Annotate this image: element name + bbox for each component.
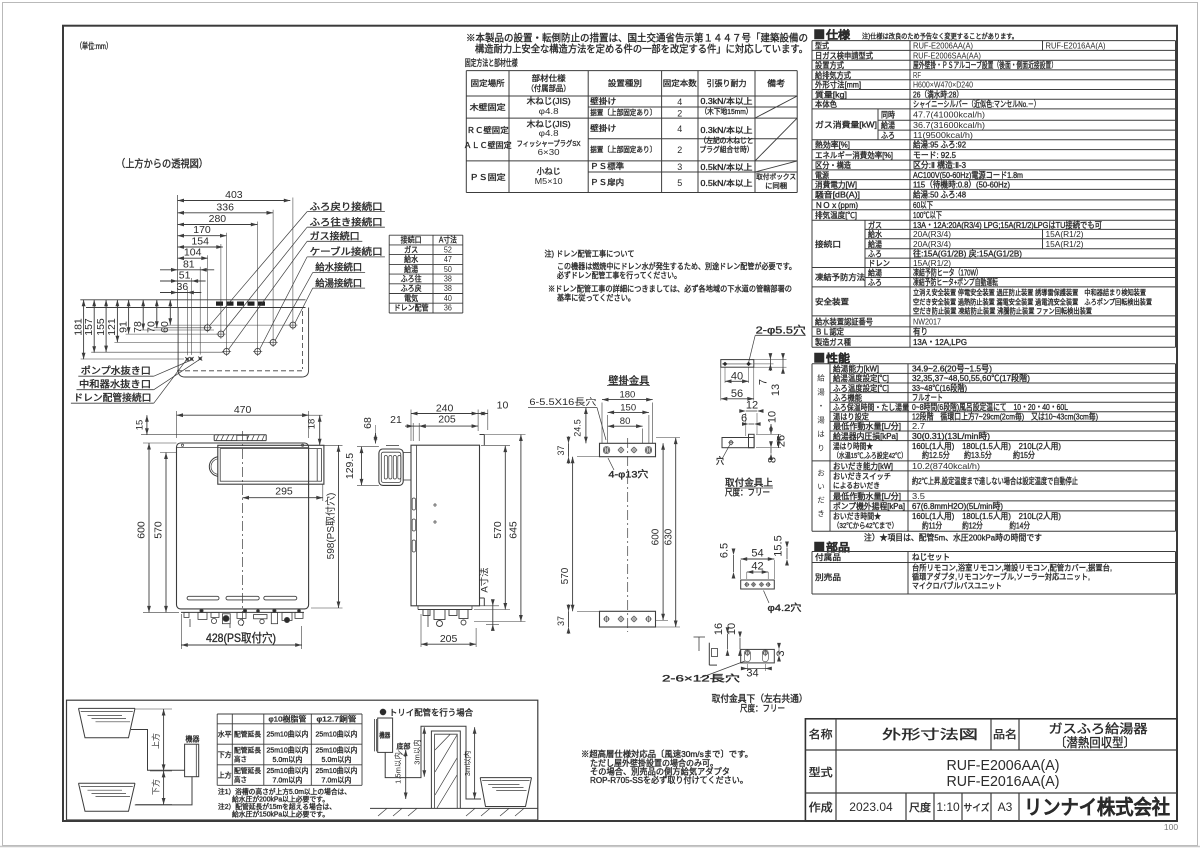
svg-text:403: 403: [225, 189, 243, 201]
svg-text:15A(R1/2): 15A(R1/2): [1046, 229, 1084, 239]
svg-text:配管延長: 配管延長: [234, 746, 261, 755]
svg-text:2-6×12長穴: 2-6×12長穴: [662, 673, 740, 684]
svg-text:注2）配管延長が15mを超える場合は、: 注2）配管延長が15mを超える場合は、: [218, 802, 336, 811]
svg-text:上方: 上方: [151, 733, 161, 749]
svg-text:60: 60: [159, 321, 171, 333]
svg-text:52: 52: [444, 245, 452, 254]
svg-text:6-5.5X16長穴: 6-5.5X16長穴: [529, 396, 596, 407]
svg-text:水平: 水平: [218, 730, 232, 739]
svg-text:固定場所: 固定場所: [471, 78, 505, 88]
svg-text:注1）浴槽の高さが上方5.0m以上の場合は、: 注1）浴槽の高さが上方5.0m以上の場合は、: [218, 787, 351, 796]
svg-text:336: 336: [216, 201, 234, 213]
svg-text:ドレン配管: ドレン配管: [394, 303, 429, 313]
svg-text:470: 470: [234, 404, 252, 416]
svg-text:給水圧が200kPa以上必要です。: 給水圧が200kPa以上必要です。: [232, 795, 329, 804]
svg-text:ガスふろ給湯器: ガスふろ給湯器: [1049, 722, 1149, 736]
svg-text:15A(R1/2): 15A(R1/2): [1046, 239, 1084, 249]
svg-text:同時: 同時: [881, 111, 895, 120]
svg-text:20A(R3/4): 20A(R3/4): [913, 229, 951, 239]
svg-text:157: 157: [83, 318, 95, 336]
svg-text:91: 91: [117, 321, 129, 333]
svg-text:性能: 性能: [826, 351, 850, 365]
svg-text:RUF-E2016AA(A): RUF-E2016AA(A): [947, 774, 1060, 790]
svg-text:RF: RF: [913, 70, 921, 80]
svg-text:81: 81: [183, 258, 195, 270]
svg-text:ふろ戻り接続口: ふろ戻り接続口: [310, 201, 383, 213]
svg-text:3: 3: [677, 162, 682, 172]
svg-text:排気温度[℃]: 排気温度[℃]: [815, 210, 857, 220]
svg-text:38: 38: [444, 275, 452, 284]
svg-text:作成: 作成: [809, 801, 833, 814]
svg-text:高さ: 高さ: [234, 755, 247, 764]
svg-text:3: 3: [775, 650, 787, 656]
svg-text:おいだきスイッチ: おいだきスイッチ: [833, 472, 891, 481]
svg-text:壁掛け: 壁掛け: [590, 123, 616, 133]
svg-text:（左記の木ねじと: （左記の木ねじと: [700, 135, 754, 145]
svg-text:13A・12A,LPG: 13A・12A,LPG: [913, 337, 967, 347]
svg-text:104: 104: [184, 247, 202, 259]
svg-text:機器: 機器: [186, 734, 200, 744]
svg-text:600: 600: [651, 528, 662, 545]
svg-text:12: 12: [746, 400, 758, 412]
svg-text:必ずドレン配管工事を行ってください。: 必ずドレン配管工事を行ってください。: [557, 270, 681, 280]
svg-text:0~8時間(6段階)風呂設定温にて 10・20・40・60L: 0~8時間(6段階)風呂設定温にて 10・20・40・60L: [912, 402, 1068, 412]
svg-text:32,35,37~48,50,55,60℃(17段階): 32,35,37~48,50,55,60℃(17段階): [912, 373, 1030, 383]
svg-text:A寸法: A寸法: [439, 235, 457, 245]
svg-text:給水装置認証番号: 給水装置認証番号: [815, 316, 873, 326]
svg-text:シャイニーシルバー（近似色:マンセルNo.－）: シャイニーシルバー（近似色:マンセルNo.－）: [913, 99, 1040, 109]
svg-text:100℃以下: 100℃以下: [913, 210, 942, 220]
svg-text:47.7(41000kcal/h): 47.7(41000kcal/h): [913, 110, 985, 120]
svg-text:645: 645: [507, 521, 519, 539]
svg-text:7.0m以内: 7.0m以内: [322, 775, 352, 785]
svg-text:給湯接続口: 給湯接続口: [315, 277, 362, 289]
svg-text:高さ: 高さ: [234, 775, 247, 784]
svg-text:ＰＳ標準: ＰＳ標準: [590, 161, 624, 171]
svg-text:598(PS取付穴): 598(PS取付穴): [324, 493, 337, 560]
svg-text:木壁固定: 木壁固定: [470, 102, 506, 112]
svg-text:給湯器内圧損[kPa]: 給湯器内圧損[kPa]: [833, 431, 898, 441]
svg-text:0.5kN/本以上: 0.5kN/本以上: [701, 162, 753, 172]
svg-text:引張り耐力: 引張り耐力: [707, 78, 747, 88]
svg-text:最低作動水量[L/分]: 最低作動水量[L/分]: [833, 421, 901, 431]
svg-text:質量[kg]: 質量[kg]: [815, 89, 847, 99]
svg-text:上方: 上方: [218, 771, 232, 780]
svg-text:穴: 穴: [716, 455, 724, 466]
svg-text:RUF-E2006AA(A): RUF-E2006AA(A): [913, 41, 973, 51]
svg-text:給湯:95 ふろ:92: 給湯:95 ふろ:92: [913, 140, 966, 150]
svg-text:空だき安全装置 過熱防止装置 漏電安全装置 過電流安全装置: 空だき安全装置 過熱防止装置 漏電安全装置 過電流安全装置 ふろポンプ回転検出装…: [913, 296, 1152, 306]
svg-text:ガス接続口: ガス接続口: [310, 231, 360, 243]
svg-text:154: 154: [191, 236, 209, 248]
svg-text:給水接続口: 給水接続口: [315, 262, 362, 274]
svg-text:熱効率[%]: 熱効率[%]: [815, 140, 850, 150]
svg-text:屋外壁掛・ＰＳアルコーブ設置（後面・側面近接設置）: 屋外壁掛・ＰＳアルコーブ設置（後面・側面近接設置）: [913, 60, 1057, 70]
svg-text:給水: 給水: [404, 254, 418, 264]
svg-text:78: 78: [132, 321, 144, 333]
svg-text:3m以内: 3m以内: [462, 751, 472, 776]
svg-text:26: 26: [776, 435, 788, 447]
svg-text:凍結予防ヒータ（170W）: 凍結予防ヒータ（170W）: [913, 268, 982, 278]
svg-text:別売品: 別売品: [815, 572, 841, 582]
svg-text:（単位:mm）: （単位:mm）: [76, 41, 112, 51]
svg-text:8: 8: [767, 457, 779, 463]
svg-text:3.5: 3.5: [912, 491, 925, 501]
svg-text:給水圧が150kPa以上必要です。: 給水圧が150kPa以上必要です。: [232, 810, 329, 819]
svg-text:φ10樹脂管: φ10樹脂管: [269, 714, 308, 724]
svg-text:立消え安全装置 停電安全装置 過圧防止装置 誘導雷保護装置: 立消え安全装置 停電安全装置 過圧防止装置 誘導雷保護装置 中和器詰まり検知装置: [913, 287, 1146, 297]
svg-text:空だき防止装置 凍結防止装置 沸騰防止装置 ファン回転検出装: 空だき防止装置 凍結防止装置 沸騰防止装置 ファン回転検出装置: [913, 306, 1092, 316]
svg-text:34: 34: [746, 668, 758, 680]
svg-text:ガス: ガス: [868, 220, 882, 230]
svg-text:21: 21: [390, 414, 402, 426]
svg-text:下方: 下方: [218, 750, 232, 759]
svg-text:約12.5分 約13.5分 約15分: 約12.5分 約13.5分 約15分: [922, 450, 1035, 460]
svg-text:7: 7: [757, 379, 769, 385]
svg-text:3m以内: 3m以内: [411, 739, 421, 764]
svg-text:給湯: 給湯: [868, 239, 882, 249]
svg-text:H600×W470×D240: H600×W470×D240: [913, 80, 973, 90]
svg-text:42: 42: [751, 561, 763, 573]
svg-text:180: 180: [619, 390, 635, 401]
svg-text:570: 570: [560, 567, 571, 584]
svg-text:名称: 名称: [809, 727, 833, 741]
svg-text:25m10曲以内: 25m10曲以内: [267, 745, 309, 755]
svg-text:0.3kN/本以上: 0.3kN/本以上: [701, 125, 753, 135]
svg-text:6.5: 6.5: [719, 543, 731, 558]
svg-text:付属品: 付属品: [815, 552, 841, 562]
svg-text:尺度：フリー: 尺度：フリー: [740, 703, 785, 714]
svg-text:205: 205: [438, 414, 456, 426]
svg-text:570: 570: [153, 521, 165, 539]
svg-text:配管延長: 配管延長: [234, 730, 261, 739]
svg-text:205: 205: [440, 633, 458, 645]
svg-text:54: 54: [751, 548, 763, 560]
svg-text:仕様: 仕様: [825, 28, 851, 42]
svg-text:ドレン: ドレン: [868, 259, 890, 268]
svg-text:20A(R3/4): 20A(R3/4): [913, 239, 951, 249]
svg-text:1.5m以内: 1.5m以内: [393, 752, 403, 784]
svg-text:6×30: 6×30: [538, 147, 560, 157]
svg-text:給湯温度設定[℃]: 給湯温度設定[℃]: [833, 373, 889, 383]
svg-text:68: 68: [362, 417, 374, 429]
svg-text:型式: 型式: [815, 41, 829, 51]
svg-text:ＮＯｘ(ppm): ＮＯｘ(ppm): [815, 201, 858, 210]
svg-text:150: 150: [620, 402, 636, 413]
svg-text:固定方法と部材仕様: 固定方法と部材仕様: [465, 57, 518, 68]
svg-text:日ガス検申請型式: 日ガス検申請型式: [815, 50, 873, 60]
svg-text:有り: 有り: [913, 327, 928, 337]
svg-text:外形寸法図: 外形寸法図: [882, 727, 978, 742]
svg-text:尺度: 尺度: [909, 801, 932, 814]
svg-text:100: 100: [1164, 822, 1178, 832]
svg-text:据置〔上部固定あり〕: 据置〔上部固定あり〕: [590, 144, 656, 154]
svg-text:湯はり設定: 湯はり設定: [833, 412, 869, 422]
svg-text:壁掛け: 壁掛け: [590, 96, 616, 106]
svg-text:区分・構造: 区分・構造: [815, 160, 851, 170]
svg-text:15A(R1/2): 15A(R1/2): [913, 258, 951, 268]
svg-text:外形寸法[mm]: 外形寸法[mm]: [815, 80, 861, 90]
svg-text:底部: 底部: [397, 742, 411, 751]
svg-text:マイクロバブルバスユニット: マイクロバブルバスユニット: [912, 581, 1002, 591]
svg-text:φ4.2穴: φ4.2穴: [768, 602, 803, 614]
svg-text:121: 121: [106, 318, 118, 336]
svg-text:ふろ: ふろ: [868, 278, 882, 287]
svg-text:36: 36: [444, 304, 452, 313]
svg-text:33~48℃(16段階): 33~48℃(16段階): [912, 383, 967, 393]
svg-text:トリイ配管を行う場合: トリイ配管を行う場合: [389, 708, 473, 718]
svg-text:おいだき時間★: おいだき時間★: [833, 512, 881, 521]
svg-text:11(9500kcal/h): 11(9500kcal/h): [913, 130, 973, 140]
svg-text:サイズ: サイズ: [964, 802, 990, 814]
svg-text:この機器は燃焼中にドレン水が発生するため、別途ドレン配管が必: この機器は燃焼中にドレン水が発生するため、別途ドレン配管が必要です。: [557, 261, 796, 271]
svg-text:5.0m以内: 5.0m以内: [322, 754, 352, 764]
svg-text:ふろ温度設定[℃]: ふろ温度設定[℃]: [833, 383, 889, 393]
svg-text:ＰＳ固定: ＰＳ固定: [470, 172, 506, 182]
svg-text:37: 37: [556, 616, 566, 626]
svg-text:エネルギー消費効率[%]: エネルギー消費効率[%]: [815, 150, 893, 160]
svg-text:ガス消費量[kW]: ガス消費量[kW]: [815, 119, 877, 129]
svg-text:〔潜熱回収型〕: 〔潜熱回収型〕: [1055, 736, 1135, 750]
svg-text:凍結予防方法: 凍結予防方法: [815, 272, 865, 282]
svg-text:10: 10: [497, 400, 509, 412]
svg-text:26（満水時:28）: 26（満水時:28）: [913, 89, 963, 99]
svg-text:4-φ13穴: 4-φ13穴: [608, 469, 649, 481]
svg-text:騒音[dB(A)]: 騒音[dB(A)]: [815, 190, 860, 200]
svg-text:（木下地15mm）: （木下地15mm）: [701, 106, 753, 116]
svg-text:台所リモコン,浴室リモコン,増設リモコン,配管カバー,据置台: 台所リモコン,浴室リモコン,増設リモコン,配管カバー,据置台,: [912, 563, 1112, 573]
svg-text:（32℃から42℃まで）: （32℃から42℃まで）: [833, 521, 898, 530]
svg-text:約11分 約12分 約14分: 約11分 約12分 約14分: [922, 521, 1030, 531]
svg-text:給湯: 給湯: [404, 264, 418, 274]
svg-text:ふろ保温時間・たし湯量: ふろ保温時間・たし湯量: [833, 402, 909, 412]
svg-text:ふろ: ふろ: [868, 250, 882, 259]
svg-text:区分:Ⅱ 構造:Ⅱ-3: 区分:Ⅱ 構造:Ⅱ-3: [913, 160, 966, 170]
svg-text:設置種別: 設置種別: [608, 78, 642, 88]
svg-text:電源: 電源: [815, 171, 829, 180]
svg-text:5.0m以内: 5.0m以内: [273, 754, 303, 764]
svg-text:最低作動水量[L/分]: 最低作動水量[L/分]: [833, 491, 901, 501]
svg-text:φ4.8: φ4.8: [539, 106, 559, 116]
svg-text:NW2017: NW2017: [913, 316, 941, 326]
svg-text:30(0.31)(13L/min時): 30(0.31)(13L/min時): [912, 431, 990, 441]
svg-text:ねじセット: ねじセット: [912, 552, 950, 562]
svg-text:給湯能力[kW]: 給湯能力[kW]: [833, 364, 879, 374]
svg-text:18: 18: [307, 419, 318, 430]
svg-text:1:10: 1:10: [936, 800, 960, 814]
svg-text:ポンプ機外揚程[kPa]: ポンプ機外揚程[kPa]: [833, 501, 905, 511]
svg-text:注）★項目は、配管5m、水圧200kPa時の時間です: 注）★項目は、配管5m、水圧200kPa時の時間です: [864, 533, 1042, 543]
svg-text:品名: 品名: [993, 727, 1017, 741]
svg-text:湯はり時間★: 湯はり時間★: [833, 441, 873, 451]
svg-text:10: 10: [767, 411, 779, 423]
svg-text:25m10曲以内: 25m10曲以内: [267, 765, 309, 775]
svg-text:ＡＬＣ壁固定: ＡＬＣ壁固定: [464, 140, 512, 150]
svg-text:※ドレン配管工事の詳細につきましては、必ず各地域の下水道の管: ※ドレン配管工事の詳細につきましては、必ず各地域の下水道の管轄部署の: [548, 284, 792, 294]
svg-text:15: 15: [135, 420, 146, 431]
svg-text:295: 295: [275, 486, 293, 498]
svg-text:配管延長: 配管延長: [234, 766, 261, 775]
svg-text:5: 5: [677, 178, 682, 188]
svg-text:（付属部品）: （付属部品）: [527, 83, 571, 93]
svg-text:凍結予防ヒータ+ポンプ自動運転: 凍結予防ヒータ+ポンプ自動運転: [913, 277, 998, 287]
svg-text:ケーブル接続口: ケーブル接続口: [310, 246, 383, 258]
svg-text:570: 570: [492, 521, 504, 539]
svg-text:25m10曲以内: 25m10曲以内: [267, 729, 309, 739]
svg-text:部材仕様: 部材仕様: [532, 73, 566, 83]
svg-text:15.5: 15.5: [773, 535, 785, 556]
svg-text:25m10曲以内: 25m10曲以内: [316, 729, 358, 739]
svg-text:フルオート: フルオート: [912, 392, 943, 402]
svg-text:型式: 型式: [809, 765, 833, 779]
svg-text:7.0m以内: 7.0m以内: [273, 775, 303, 785]
svg-text:下方: 下方: [151, 779, 161, 795]
svg-text:2-φ5.5穴: 2-φ5.5穴: [756, 324, 807, 337]
svg-text:38: 38: [444, 284, 452, 293]
svg-text:4: 4: [677, 97, 682, 107]
svg-text:取付ボックス: 取付ボックス: [756, 172, 796, 181]
svg-text:給排気方式: 給排気方式: [815, 70, 851, 80]
svg-text:によるおいだき: によるおいだき: [833, 481, 880, 490]
svg-text:小ねじ: 小ねじ: [537, 167, 561, 176]
svg-text:56: 56: [731, 388, 743, 400]
svg-text:60以下: 60以下: [913, 200, 933, 210]
svg-text:消費電力[W]: 消費電力[W]: [815, 180, 857, 190]
svg-text:A寸法: A寸法: [479, 567, 491, 592]
svg-text:おいだき能力[kW]: おいだき能力[kW]: [833, 461, 893, 471]
svg-text:280: 280: [209, 213, 227, 225]
svg-text:設置方式: 設置方式: [815, 60, 844, 70]
svg-text:50: 50: [444, 265, 453, 274]
svg-text:φ12.7銅管: φ12.7銅管: [317, 714, 358, 724]
svg-text:RUF-E2006AA(A): RUF-E2006AA(A): [947, 758, 1060, 774]
svg-text:M5×10: M5×10: [535, 176, 563, 186]
svg-text:約2℃上昇,設定温度まで達しない場合は設定温度で自動停止: 約2℃上昇,設定温度まで達しない場合は設定温度で自動停止: [912, 476, 1078, 486]
svg-text:2: 2: [677, 145, 682, 155]
svg-text:構造耐力上安全な構造方法を定める件の一部を改定する件」に対応: 構造耐力上安全な構造方法を定める件の一部を改定する件」に対応しています。: [475, 43, 808, 56]
svg-text:壁掛金具: 壁掛金具: [608, 374, 649, 387]
svg-text:36.7(31600kcal/h): 36.7(31600kcal/h): [913, 120, 985, 130]
svg-text:※本製品の設置・転倒防止の措置は、国土交通省告示第１４４７号: ※本製品の設置・転倒防止の措置は、国土交通省告示第１４４７号「建築設備の: [466, 32, 808, 45]
svg-text:67(6.8mmH2O)(5L/min時): 67(6.8mmH2O)(5L/min時): [912, 501, 1003, 511]
svg-text:40: 40: [731, 371, 743, 383]
svg-text:給湯:50 ふろ:48: 給湯:50 ふろ:48: [913, 190, 966, 200]
svg-text:170: 170: [193, 224, 211, 236]
svg-text:プラグ組合せ時）: プラグ組合せ時）: [700, 144, 754, 154]
svg-text:に同梱: に同梱: [765, 181, 787, 190]
svg-text:RUF-E2016AA(A): RUF-E2016AA(A): [1046, 41, 1106, 51]
svg-text:70: 70: [146, 321, 158, 333]
svg-text:34.9~2.6(20号~1.5号): 34.9~2.6(20号~1.5号): [912, 364, 992, 374]
svg-text:2: 2: [677, 109, 682, 119]
svg-text:（上方からの透視図）: （上方からの透視図）: [116, 157, 208, 170]
svg-text:ポンプ水抜き口: ポンプ水抜き口: [81, 365, 151, 377]
svg-text:基準に従ってください。: 基準に従ってください。: [557, 293, 635, 303]
svg-text:155: 155: [95, 318, 107, 336]
svg-text:リンナイ株式会社: リンナイ株式会社: [1024, 795, 1170, 819]
svg-text:給湯: 給湯: [881, 120, 895, 130]
svg-text:12段階 循環口上方7~29cm(2cm毎) 又は10~43: 12段階 循環口上方7~29cm(2cm毎) 又は10~43cm(3cm毎): [912, 412, 1098, 422]
svg-text:16: 16: [713, 623, 725, 635]
svg-text:36: 36: [177, 281, 189, 293]
svg-text:おいだき: おいだき: [816, 469, 825, 523]
svg-text:木ねじ(JIS): 木ねじ(JIS): [527, 96, 571, 106]
svg-text:2.7: 2.7: [912, 421, 925, 431]
svg-text:47: 47: [444, 255, 452, 264]
svg-text:ＲＣ壁固定: ＲＣ壁固定: [467, 125, 509, 135]
svg-text:モード: 92.5: モード: 92.5: [913, 150, 956, 160]
svg-text:製造ガス種: 製造ガス種: [815, 337, 851, 347]
svg-text:安全装置: 安全装置: [815, 296, 849, 306]
svg-text:給水: 給水: [868, 229, 882, 239]
svg-text:ふろ: ふろ: [881, 131, 895, 140]
svg-text:A3: A3: [998, 800, 1013, 814]
svg-text:2023.04: 2023.04: [849, 800, 893, 814]
svg-text:ガス: ガス: [404, 244, 418, 254]
svg-text:機器: 機器: [379, 731, 390, 740]
svg-text:中和器水抜き口: 中和器水抜き口: [79, 379, 151, 391]
svg-text:25m10曲以内: 25m10曲以内: [316, 745, 358, 755]
svg-text:給湯: 給湯: [868, 268, 882, 278]
svg-text:0.3kN/本以上: 0.3kN/本以上: [701, 96, 753, 106]
svg-text:115（待機時:0.8）(50-60Hz): 115（待機時:0.8）(50-60Hz): [913, 180, 1010, 190]
svg-text:0.5kN/本以上: 0.5kN/本以上: [701, 178, 753, 188]
svg-text:ふろ戻: ふろ戻: [401, 283, 422, 293]
svg-text:RUF-E2006SAA(AA): RUF-E2006SAA(AA): [913, 50, 981, 60]
svg-text:ふろ往き接続口: ふろ往き接続口: [310, 216, 383, 228]
svg-text:AC100V(50-60Hz)電源コード1.8m: AC100V(50-60Hz)電源コード1.8m: [913, 170, 1023, 180]
svg-text:据置〔上部固定あり〕: 据置〔上部固定あり〕: [590, 107, 656, 117]
svg-text:固定本数: 固定本数: [663, 78, 697, 88]
svg-text:（水温15℃,ふろ設定42℃）: （水温15℃,ふろ設定42℃）: [833, 450, 907, 460]
svg-text:φ4.8: φ4.8: [539, 128, 559, 138]
svg-text:600: 600: [136, 521, 148, 539]
svg-text:13: 13: [770, 384, 782, 396]
svg-text:給湯・湯はり: 給湯・湯はり: [816, 372, 825, 457]
svg-text:ROP-R705-SSを必ず取り付けてください。: ROP-R705-SSを必ず取り付けてください。: [590, 775, 748, 785]
svg-text:ＰＳ扉内: ＰＳ扉内: [590, 177, 624, 187]
svg-text:10: 10: [726, 623, 738, 635]
svg-text:ふろ機能: ふろ機能: [833, 392, 862, 402]
svg-text:51: 51: [179, 270, 191, 282]
svg-text:注) ドレン配管工事について: 注) ドレン配管工事について: [545, 249, 635, 259]
svg-text:ふろ往: ふろ往: [401, 274, 422, 284]
svg-text:電気: 電気: [404, 293, 418, 303]
svg-text:37: 37: [556, 445, 566, 455]
svg-text:10.2(8740kcal/h): 10.2(8740kcal/h): [912, 461, 980, 471]
svg-text:4: 4: [677, 124, 682, 134]
svg-text:ドレン配管接続口: ドレン配管接続口: [73, 392, 151, 404]
svg-text:428(PS取付穴): 428(PS取付穴): [206, 630, 276, 645]
svg-text:80: 80: [620, 416, 631, 427]
svg-text:40: 40: [444, 294, 453, 303]
svg-text:24.5: 24.5: [573, 419, 583, 437]
svg-text:129.5: 129.5: [344, 453, 356, 479]
svg-text:接続口: 接続口: [401, 235, 422, 245]
svg-text:循環アダプタ,リモコンケーブル,ソーラー対応ユニット,: 循環アダプタ,リモコンケーブル,ソーラー対応ユニット,: [912, 572, 1090, 582]
svg-text:本体色: 本体色: [815, 99, 837, 109]
svg-text:注)仕様は改良のため予告なく変更することがあります。: 注)仕様は改良のため予告なく変更することがあります。: [862, 32, 1018, 41]
svg-text:備考: 備考: [767, 78, 785, 88]
svg-text:ＢＬ認定: ＢＬ認定: [815, 327, 844, 337]
svg-text:接続口: 接続口: [815, 239, 841, 249]
svg-text:25m10曲以内: 25m10曲以内: [316, 765, 358, 775]
svg-text:630: 630: [663, 528, 674, 545]
